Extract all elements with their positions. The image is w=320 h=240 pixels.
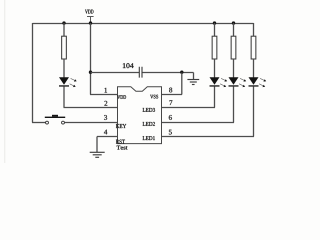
pin number 2 bbox=[104, 101, 107, 106]
wire R3 to D3 bbox=[233, 59, 235, 78]
wire pin 4 to ground bbox=[97, 137, 117, 153]
wire rail to button S1 bbox=[32, 122, 45, 124]
wire D2 to pin 7 bbox=[162, 86, 215, 107]
ground (right, VSS) bbox=[187, 80, 199, 85]
junction dot C1/pin8 bbox=[180, 71, 183, 74]
ground (pin 4 RST) bbox=[90, 152, 105, 157]
wire R1 to D1 bbox=[63, 59, 65, 78]
pin label VDD bbox=[117, 95, 126, 99]
power label VDD bbox=[85, 10, 93, 14]
pin number 4 bbox=[104, 130, 107, 135]
pin label LED1 bbox=[143, 136, 155, 140]
pin number 1 bbox=[105, 88, 107, 93]
wire bus to R1 bbox=[63, 23, 65, 37]
scan edge artifact bbox=[4, 0, 5, 163]
wire down to ground bbox=[193, 73, 195, 80]
pin label RST bbox=[116, 140, 125, 144]
LED D4 bbox=[249, 77, 267, 87]
pin label LED3 bbox=[143, 108, 155, 112]
wire VDD to C1 bbox=[91, 72, 140, 74]
wire bus to R3 bbox=[233, 23, 235, 37]
resistor R2 bbox=[212, 36, 217, 59]
pin number 6 bbox=[169, 115, 172, 120]
IC U1 body bbox=[118, 87, 162, 144]
wire VDD lead bbox=[90, 17, 92, 24]
junction dot bus/R1 bbox=[62, 21, 65, 24]
wire VSS node to pin 8 bbox=[162, 73, 182, 95]
label Test bbox=[117, 146, 128, 150]
resistor R3 bbox=[231, 36, 236, 59]
LED D2 bbox=[210, 77, 228, 87]
pin number 8 bbox=[169, 88, 172, 93]
pin label VSS bbox=[150, 95, 158, 99]
junction dot bus/R3 bbox=[232, 21, 235, 24]
LED D3 bbox=[229, 77, 247, 87]
pin number 7 bbox=[169, 100, 172, 105]
LED D1 bbox=[59, 77, 77, 87]
power symbol bar bbox=[87, 16, 94, 18]
junction dot VDD/C1 bbox=[89, 71, 92, 74]
wire button to pin 3 bbox=[65, 122, 117, 124]
wire R2 to D2 bbox=[214, 59, 216, 78]
wire VDD rail to pin 1 bbox=[90, 23, 117, 95]
wire R4 to D4 bbox=[253, 59, 255, 78]
wire left rail bbox=[32, 23, 34, 123]
junction dot bus/VDD bbox=[89, 21, 92, 24]
wire top supply bus bbox=[33, 23, 254, 25]
pin label LED2 bbox=[143, 122, 155, 126]
pin number 3 bbox=[104, 115, 107, 120]
wire C1 to VSS node bbox=[143, 72, 194, 74]
pin label KEY bbox=[116, 124, 126, 128]
capacitor value 104 bbox=[123, 63, 134, 68]
capacitor C1 bbox=[139, 67, 142, 78]
wire bus to R4 bbox=[253, 23, 255, 37]
wire D1 to pin 2 bbox=[64, 86, 118, 107]
resistor R1 bbox=[62, 36, 67, 59]
wire D4 to pin 5 bbox=[162, 86, 254, 136]
junction dot bus/R2 bbox=[213, 21, 216, 24]
wire bus to R2 bbox=[214, 23, 216, 37]
wire D3 to pin 6 bbox=[162, 86, 234, 122]
pushbutton S1 bbox=[45, 115, 65, 124]
resistor R4 bbox=[251, 36, 256, 59]
pin number 5 bbox=[169, 130, 172, 135]
